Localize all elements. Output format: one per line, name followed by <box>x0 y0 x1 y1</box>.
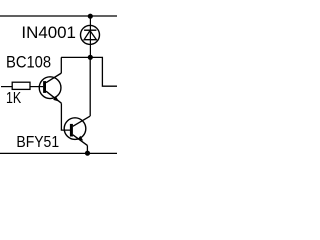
diode D1 anode triangle <box>84 31 96 40</box>
transistor Q2 BFY51 circle <box>64 118 86 140</box>
diode D1 cathode bar <box>84 29 96 31</box>
wire: diode vertical lead (through device circle) <box>89 16 91 57</box>
svg-text:IN4001: IN4001 <box>21 24 76 42</box>
transistor Q1 collector stroke <box>46 73 61 83</box>
wire: Q2 emitter drop to 0V rail <box>86 145 88 153</box>
svg-text:BFY51: BFY51 <box>16 134 59 151</box>
svg-text:1K: 1K <box>6 90 22 107</box>
transistor Q1 emitter arrowhead <box>53 96 59 101</box>
transistor Q2 base bar <box>70 124 73 137</box>
node: collector junction (diode anode / both collectors) <box>88 55 93 60</box>
diode D1 circle envelope <box>81 25 100 44</box>
wire: bottom 0V rail <box>0 152 117 154</box>
transistor Q1 BC108 circle <box>39 77 61 99</box>
transistor Q1 base bar <box>43 81 46 93</box>
wire: Q2 collector riser to collector node <box>89 57 91 116</box>
wire: Q1 emitter to Q2 base <box>61 103 70 130</box>
wire: top supply rail <box>0 15 117 17</box>
svg-text:BC108: BC108 <box>6 54 51 72</box>
transistor Q2 emitter stroke <box>73 135 88 146</box>
node: emitter junction on 0V rail <box>85 151 90 156</box>
transistor Q2 emitter arrowhead <box>78 136 84 141</box>
wire: BC108 collector riser <box>60 57 62 73</box>
node: junction of diode cathode and top rail <box>88 14 93 19</box>
wire: base wire from left edge <box>1 86 12 88</box>
transistor Q1 emitter stroke <box>46 91 61 103</box>
wire: collector node horizontal, to relay stub right <box>61 57 117 86</box>
resistor R1 1K box <box>12 82 30 89</box>
transistor Q2 collector stroke <box>73 116 90 126</box>
wire: resistor to BC108 base <box>30 86 43 88</box>
